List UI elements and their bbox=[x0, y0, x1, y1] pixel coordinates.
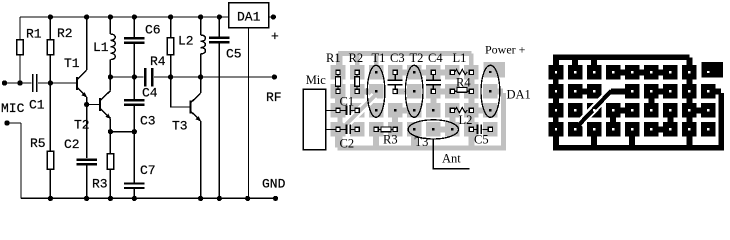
svg-text:GND: GND bbox=[262, 177, 286, 192]
svg-text:DA1: DA1 bbox=[507, 88, 531, 102]
svg-text:C4: C4 bbox=[428, 51, 443, 65]
transistor T2 outline bbox=[405, 65, 423, 117]
junction R3 ground bbox=[108, 196, 113, 201]
svg-text:L2: L2 bbox=[459, 113, 473, 127]
capacitor C2 bbox=[336, 125, 359, 134]
svg-text:T3: T3 bbox=[172, 119, 188, 134]
node L1 tank bbox=[108, 74, 113, 79]
terminal GND bbox=[273, 196, 278, 201]
svg-text:T2: T2 bbox=[410, 51, 424, 65]
junction C5 ground bbox=[217, 196, 222, 201]
wire mic ground lead bbox=[7, 123, 21, 198]
capacitor C5 bbox=[469, 125, 492, 134]
pad holes (white) bbox=[555, 71, 710, 131]
resistor R3 bbox=[374, 127, 397, 132]
svg-text:C1: C1 bbox=[340, 95, 355, 109]
junction DA1 ground bbox=[245, 196, 250, 201]
svg-text:T1: T1 bbox=[372, 51, 386, 65]
svg-text:C2: C2 bbox=[64, 137, 80, 152]
copper pads and traces black bbox=[549, 62, 722, 147]
junction R5 ground bbox=[48, 196, 53, 201]
node C6 C3 C4 bbox=[132, 74, 137, 79]
wire microphone line bbox=[5, 82, 77, 84]
board outline traces grey bbox=[338, 54, 504, 148]
wire mid RF rail bbox=[110, 76, 274, 78]
junction C2 ground bbox=[84, 196, 89, 201]
svg-text:C3: C3 bbox=[140, 114, 156, 129]
terminal MIC upper bbox=[2, 80, 7, 85]
svg-text:C5: C5 bbox=[226, 47, 242, 62]
inductor L1 bbox=[110, 17, 115, 77]
svg-text:R2: R2 bbox=[57, 26, 73, 41]
svg-text:+: + bbox=[271, 29, 279, 44]
transistor T3 outline bbox=[408, 120, 458, 139]
diagonal trace with clearance bbox=[580, 93, 609, 124]
junction T3 emitter ground bbox=[198, 196, 203, 201]
capacitor C3 bbox=[388, 70, 403, 93]
terminal RF output bbox=[272, 74, 277, 79]
svg-text:MIC: MIC bbox=[1, 101, 25, 116]
svg-text:R4: R4 bbox=[456, 76, 471, 90]
antenna lead bbox=[433, 139, 469, 169]
terminal MIC lower bbox=[4, 120, 9, 125]
svg-text:Power +: Power + bbox=[485, 43, 526, 57]
capacitor C1 bbox=[33, 74, 37, 92]
svg-text:C7: C7 bbox=[140, 163, 156, 178]
resistor R4 bbox=[450, 88, 473, 94]
svg-text:DA1: DA1 bbox=[237, 10, 261, 25]
capacitor C3 bbox=[124, 77, 145, 132]
resistor R4 bbox=[167, 17, 173, 77]
svg-text:C3: C3 bbox=[390, 51, 405, 65]
svg-text:Ant: Ant bbox=[442, 152, 461, 166]
svg-text:C1: C1 bbox=[29, 98, 45, 113]
node T1 base divider bbox=[48, 80, 53, 85]
capacitor C6 bbox=[124, 17, 145, 77]
svg-text:Mic: Mic bbox=[306, 73, 327, 87]
pad holes (black) bbox=[337, 71, 492, 131]
node C3 C7 bbox=[132, 129, 137, 134]
svg-text:C6: C6 bbox=[145, 23, 161, 38]
svg-text:T2: T2 bbox=[74, 118, 90, 133]
wire T1 emitter to C2 and T2 base bbox=[87, 105, 101, 159]
svg-text:L1: L1 bbox=[453, 51, 467, 65]
wire T3 base lead bbox=[171, 77, 191, 107]
wire top supply rail bbox=[20, 16, 229, 18]
svg-text:R5: R5 bbox=[30, 136, 46, 151]
IC DA1 outline bbox=[481, 65, 500, 117]
transistor T3 bbox=[190, 77, 201, 198]
resistor R2 bbox=[355, 70, 360, 93]
node T3 collector RF bbox=[198, 74, 203, 79]
resistor R2 bbox=[47, 17, 53, 83]
svg-text:L2: L2 bbox=[178, 34, 194, 49]
copper traces (component side, grey) bbox=[331, 62, 504, 147]
capacitor C5 bbox=[209, 17, 230, 198]
junction L1 top rail bbox=[108, 14, 113, 19]
svg-text:R1: R1 bbox=[326, 51, 341, 65]
svg-text:R4: R4 bbox=[150, 54, 166, 69]
capacitor C7 bbox=[124, 132, 145, 199]
node T1 emitter T2 base bbox=[84, 102, 89, 107]
svg-text:T3: T3 bbox=[415, 135, 429, 149]
svg-text:R1: R1 bbox=[26, 27, 42, 42]
resistor R5 bbox=[47, 83, 53, 198]
svg-text:C5: C5 bbox=[474, 133, 489, 147]
node R4 C4 bbox=[168, 74, 173, 79]
junction R4 top rail bbox=[168, 14, 173, 19]
junction R1 mic line bbox=[17, 80, 22, 85]
capacitor C1 bbox=[336, 106, 359, 115]
svg-text:C2: C2 bbox=[340, 137, 355, 151]
labels middle panel bbox=[306, 43, 531, 166]
labels left panel bbox=[1, 10, 286, 192]
wire T2 emitter row bbox=[110, 131, 134, 133]
transistor T1 outline bbox=[367, 65, 385, 117]
components overlay bbox=[303, 65, 500, 168]
svg-text:R3: R3 bbox=[383, 133, 398, 147]
svg-text:RF: RF bbox=[266, 90, 282, 105]
svg-text:L1: L1 bbox=[93, 40, 109, 55]
inductor L2 bbox=[450, 108, 473, 113]
transistor T1 bbox=[77, 17, 87, 105]
junction C6 top rail bbox=[132, 14, 137, 19]
terminal plus supply bbox=[271, 14, 276, 19]
capacitor C2 bbox=[76, 160, 97, 165]
inductor L2 bbox=[201, 17, 206, 77]
junction C5 top rail bbox=[217, 14, 222, 19]
IC DA1 box bbox=[229, 3, 273, 199]
svg-text:R3: R3 bbox=[92, 177, 108, 192]
transistor T2 bbox=[100, 77, 111, 132]
capacitor C4 bbox=[426, 70, 441, 93]
svg-text:T1: T1 bbox=[64, 56, 80, 71]
junction R2 top rail bbox=[48, 14, 53, 19]
junction T1 collector rail bbox=[84, 14, 89, 19]
junction C7 ground bbox=[132, 196, 137, 201]
capacitor C4 bbox=[145, 68, 152, 86]
board outline trace bbox=[556, 57, 722, 147]
resistor R1 bbox=[17, 17, 23, 83]
microphone body bbox=[303, 89, 326, 149]
svg-text:R2: R2 bbox=[349, 51, 364, 65]
inductor L1 bbox=[450, 69, 473, 74]
resistor R3 bbox=[107, 132, 113, 199]
svg-text:C4: C4 bbox=[142, 86, 158, 101]
wire bottom ground rail bbox=[21, 197, 276, 199]
node T2 emitter bbox=[108, 129, 113, 134]
resistor R1 bbox=[336, 70, 341, 93]
diagonal trace with clearance bbox=[345, 96, 374, 125]
junction L2 top rail bbox=[198, 14, 203, 19]
